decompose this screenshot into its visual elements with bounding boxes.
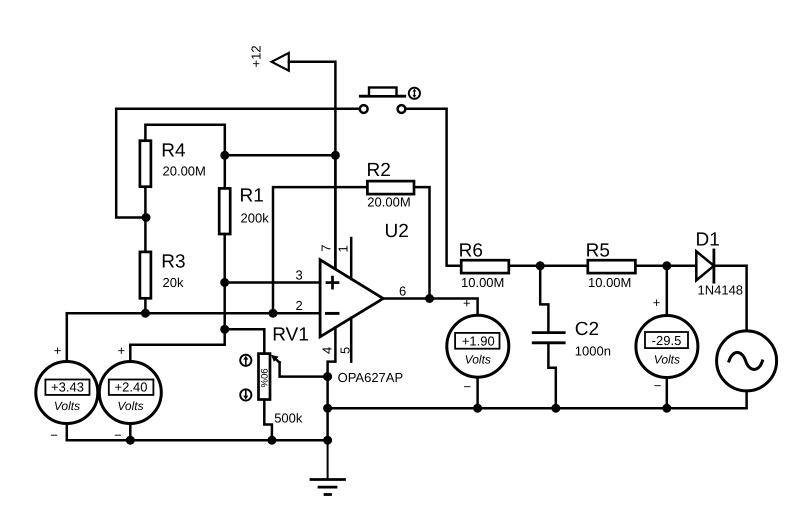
wire R5 to node — [636, 265, 667, 268]
wire node to R5 — [540, 265, 587, 268]
svg-text:1000n: 1000n — [575, 344, 611, 359]
node dot feedback branch — [269, 309, 278, 318]
node dot +12/pin7 rail — [331, 151, 340, 160]
svg-text:+1.90: +1.90 — [462, 333, 495, 348]
svg-text:2: 2 — [296, 298, 303, 313]
wire R2 right to output — [415, 187, 430, 298]
wire R4 top to R1 top — [145, 125, 224, 189]
svg-text:+12: +12 — [249, 45, 264, 67]
wire button left net down-left — [116, 109, 146, 218]
voltmeter V2 +2.40 — [99, 343, 161, 443]
svg-text:−: − — [114, 428, 122, 443]
capacitor C2 — [533, 319, 611, 359]
node dot pin3 branch — [220, 278, 229, 287]
wire C2 bottom — [548, 344, 555, 408]
svg-text:R3: R3 — [161, 252, 185, 273]
wire sine source bottom — [667, 392, 747, 408]
resistor R4 — [140, 141, 206, 187]
svg-text:+: + — [118, 343, 126, 358]
svg-text:R4: R4 — [161, 141, 186, 162]
wire feedback riser to R2 — [273, 187, 367, 313]
wire V1 plus riser — [66, 313, 69, 361]
resistor R5 — [586, 240, 636, 290]
svg-text:Volts: Volts — [654, 353, 680, 367]
svg-text:200k: 200k — [241, 210, 270, 225]
svg-text:−: − — [654, 378, 662, 393]
node dot V2 bottom — [126, 436, 135, 445]
wire button left net horizontal — [116, 107, 359, 110]
svg-text:Volts: Volts — [54, 399, 80, 413]
svg-text:+: + — [653, 295, 661, 310]
svg-text:R1: R1 — [240, 185, 264, 206]
svg-text:5: 5 — [337, 347, 352, 354]
svg-text:20.00M: 20.00M — [163, 163, 206, 178]
svg-text:-29.5: -29.5 — [652, 333, 682, 348]
svg-text:+: + — [54, 343, 62, 358]
svg-text:6: 6 — [399, 284, 406, 299]
opamp plus marker — [327, 277, 338, 288]
node dot RV1 bottom — [267, 436, 276, 445]
node dot output — [425, 294, 434, 303]
wire node to D1 to source — [667, 266, 747, 330]
wire V4 bottom — [666, 379, 669, 409]
svg-text:10.00M: 10.00M — [461, 275, 504, 290]
svg-text:R2: R2 — [367, 160, 391, 181]
pin 5 line — [350, 318, 353, 362]
node dot wiper junction — [323, 372, 332, 381]
voltmeter V4 -29.5 — [636, 295, 698, 393]
wire V2 bottom — [129, 424, 132, 440]
push button toggle icon — [409, 88, 420, 99]
wire V1 bottom — [66, 424, 69, 440]
RV1 down adjust button — [240, 389, 251, 400]
node dot C2 bottom — [551, 404, 560, 413]
wire R4 bottom to R3 top — [144, 187, 147, 252]
svg-text:−: − — [463, 379, 471, 394]
svg-text:Volts: Volts — [465, 353, 491, 367]
svg-text:500k: 500k — [274, 411, 303, 426]
svg-text:−: − — [50, 428, 58, 443]
svg-text:+2.40: +2.40 — [115, 380, 148, 395]
node dot right bus joint — [323, 404, 332, 413]
wire R1 bottom vertical — [223, 234, 226, 345]
wire right bus — [328, 407, 667, 410]
resistor R1 — [219, 185, 269, 234]
opamp minus marker — [326, 312, 338, 315]
svg-text:1: 1 — [336, 245, 351, 252]
svg-text:+: + — [463, 296, 471, 311]
node dot R6-R5-C2 — [536, 261, 545, 270]
svg-text:+3.43: +3.43 — [51, 380, 84, 395]
AC source — [717, 331, 777, 391]
wire C2 top — [540, 266, 548, 332]
svg-text:U2: U2 — [385, 221, 409, 242]
RV1 wiper arrow — [271, 355, 280, 363]
wire +12 to pin7 vertical — [289, 62, 336, 269]
svg-text:1N4148: 1N4148 — [698, 282, 744, 297]
svg-text:3: 3 — [296, 268, 303, 283]
svg-text:10.00M: 10.00M — [588, 275, 631, 290]
svg-text:R5: R5 — [586, 240, 610, 261]
wire button right to R6 — [406, 109, 461, 266]
node dot R5-D1-V4 — [662, 261, 671, 270]
node dot V3 bottom — [473, 404, 482, 413]
svg-text:Volts: Volts — [117, 399, 143, 413]
node dot V4 bottom — [662, 404, 671, 413]
wire wiper to node — [280, 362, 328, 376]
wire to RV1 top — [225, 329, 265, 353]
wire R3 bottom — [144, 298, 147, 313]
pin 7 line — [334, 155, 337, 269]
svg-text:90%: 90% — [258, 368, 269, 388]
RV1 up adjust button — [240, 355, 251, 366]
resistor R2 — [367, 160, 415, 209]
power symbol +12 — [249, 45, 289, 70]
svg-text:RV1: RV1 — [272, 324, 309, 345]
node dot R3 bottom — [141, 309, 150, 318]
svg-text:20k: 20k — [163, 275, 184, 290]
wire V3 bottom — [476, 378, 479, 408]
svg-text:7: 7 — [319, 244, 334, 251]
voltmeter V3 +1.90 — [447, 296, 509, 395]
wire left ground bus — [67, 439, 328, 442]
svg-text:R6: R6 — [459, 240, 483, 261]
op-amp U2 — [320, 221, 409, 337]
node dot pot-top branch — [220, 325, 229, 334]
wire opamp output — [383, 299, 477, 315]
wire V4 top — [666, 266, 669, 315]
ground — [311, 440, 345, 494]
svg-text:4: 4 — [320, 347, 335, 354]
wire R6 to node — [510, 265, 540, 268]
wire node B to +12 rail — [225, 154, 336, 157]
node dot left bus joint — [323, 436, 332, 445]
resistor R6 — [459, 240, 509, 290]
wire RV1 bottom — [264, 400, 272, 440]
svg-text:OPA627AP: OPA627AP — [338, 370, 404, 385]
svg-text:D1: D1 — [696, 230, 720, 251]
svg-text:C2: C2 — [575, 319, 599, 340]
resistor R3 — [140, 252, 186, 299]
vertical ground stem upper — [326, 377, 329, 441]
potentiometer RV1 — [258, 324, 309, 425]
wire to V2 plus — [130, 345, 224, 361]
node dot R4-R3 — [142, 213, 151, 222]
wire net2 horizontal — [67, 312, 320, 315]
svg-text:20.00M: 20.00M — [367, 194, 410, 209]
push button switch — [360, 88, 406, 113]
pin 4 line — [328, 327, 336, 376]
voltmeter V1 +3.43 — [36, 343, 98, 443]
node dot R4-R1 top — [220, 151, 229, 160]
wire pin3 input — [225, 281, 320, 284]
diode D1 — [696, 230, 744, 298]
pin 1 line — [350, 238, 353, 279]
